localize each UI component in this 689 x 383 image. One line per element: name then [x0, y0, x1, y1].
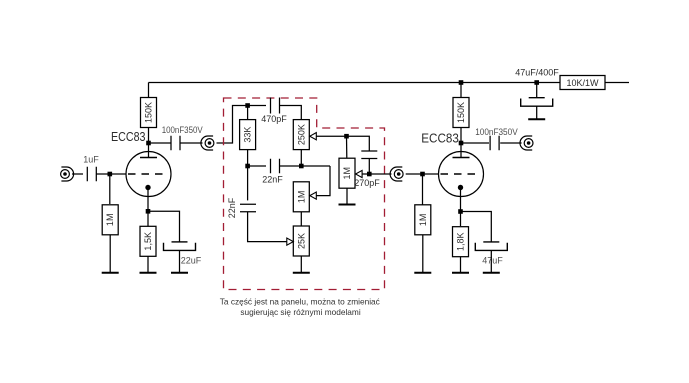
wire 1M bass wiper link — [316, 166, 330, 196]
svg-text:25K: 25K — [296, 233, 306, 249]
wire filter cap to ground — [536, 106, 538, 118]
svg-text:47uF/400F: 47uF/400F — [515, 68, 559, 78]
ground 1M V1 — [102, 272, 119, 274]
junction grid node V1 — [108, 172, 113, 177]
wire 33K bottom to mid node — [247, 150, 249, 166]
svg-text:150K: 150K — [456, 102, 466, 123]
wire volume pot to ground — [346, 188, 348, 204]
wiper arrow 25K — [287, 238, 294, 245]
svg-text:Ta część jest na panelu, można: Ta część jest na panelu, można to zmieni… — [220, 297, 380, 307]
svg-text:250K: 250K — [296, 124, 306, 145]
resistor 150K anode V1 — [141, 98, 157, 128]
connector input jack — [61, 167, 74, 181]
connector output jack — [520, 136, 533, 150]
svg-text:100nF350V: 100nF350V — [475, 127, 518, 137]
resistor 1,5K cathode V1 — [140, 226, 156, 256]
wire 150K V2 to rail — [460, 83, 462, 98]
wiper arrow 250K — [310, 133, 317, 140]
svg-text:1,5K: 1,5K — [143, 232, 153, 251]
potentiometer 1M bass — [293, 182, 309, 212]
junction 33K mid node — [245, 164, 250, 169]
wire grid node to 1M — [109, 174, 111, 204]
wire send jack to tone stack — [217, 106, 248, 144]
svg-text:150K: 150K — [144, 102, 154, 123]
wire 100nF to send jack — [180, 142, 203, 144]
svg-text:47uF: 47uF — [482, 255, 503, 265]
junction grid node V2 — [420, 172, 425, 177]
svg-text:1M: 1M — [418, 214, 428, 227]
resistor 10K/1W — [560, 76, 605, 90]
capacitor 100nF350V stage2 — [490, 136, 499, 151]
wire top node to 470pF — [248, 105, 266, 107]
wire anode to 100nF — [149, 142, 172, 144]
wire cathode V2 — [460, 190, 462, 226]
junction rail to 47uF cap — [534, 80, 539, 85]
wire 47uF to ground — [490, 250, 492, 272]
wire mid node to 22nF — [248, 165, 266, 167]
capacitor 22nF slope vertical — [240, 204, 256, 212]
wire 1M V2 to ground — [422, 235, 424, 272]
resistor 150K anode V2 — [453, 98, 469, 128]
wire B+ rail left section — [149, 82, 561, 84]
wire top node to 33K — [247, 106, 249, 120]
wire cathode V1 — [147, 190, 149, 226]
potentiometer 1M volume — [339, 158, 355, 188]
wire anode V1 — [148, 127, 150, 157]
svg-text:1M: 1M — [342, 167, 352, 180]
capacitor 100nF350V stage1 — [171, 136, 180, 151]
svg-text:ECC83: ECC83 — [421, 132, 459, 146]
svg-text:1uF: 1uF — [83, 154, 99, 164]
wire 1M bass to 25K — [300, 212, 302, 226]
wire 250K wiper to node A — [316, 135, 346, 137]
wire grid node to 1M V2 — [422, 174, 424, 205]
wire 1uF to grid node — [96, 173, 126, 175]
wire node A to volume pot — [346, 136, 348, 158]
svg-text:22nF: 22nF — [227, 197, 237, 218]
wire cathode to 47uF — [461, 212, 492, 242]
capacitor 22nF mid — [271, 159, 280, 174]
tube ECC83 V2 — [439, 152, 484, 197]
ground 47uF — [483, 272, 500, 274]
junction cathode node V1 — [146, 209, 151, 214]
svg-text:270pF: 270pF — [354, 178, 380, 188]
junction rail 150K V2 — [459, 80, 464, 85]
svg-text:22uF: 22uF — [181, 255, 202, 265]
wire anode V2 — [460, 127, 462, 157]
capacitor 47uF/400F filter — [521, 98, 553, 107]
panel outline (red dashed) — [224, 98, 385, 290]
svg-text:ECC83: ECC83 — [111, 130, 146, 144]
svg-text:10K/1W: 10K/1W — [566, 78, 599, 88]
wire cathode to 22uF — [148, 211, 180, 241]
junction cathode node V2 — [458, 209, 463, 214]
connector send jack — [201, 136, 214, 150]
ground volume pot — [339, 204, 356, 206]
svg-text:1M: 1M — [105, 214, 115, 227]
svg-text:470pF: 470pF — [261, 114, 287, 124]
resistor 1,8K cathode V2 — [453, 227, 469, 257]
svg-text:33K: 33K — [243, 127, 253, 143]
wire 25K to ground — [300, 256, 302, 272]
capacitor 1uF input — [87, 167, 96, 182]
junction node A wiper — [344, 134, 349, 139]
capacitor 22uF cathode bypass — [164, 242, 196, 251]
svg-text:22nF: 22nF — [262, 174, 283, 184]
junction tone stack top node — [245, 103, 250, 108]
wire rail to filter cap — [536, 83, 538, 98]
wire anode V2 to 100nF — [461, 142, 489, 144]
wire 22nF vertical to 25K wiper — [248, 212, 287, 242]
potentiometer 25K mid — [293, 226, 309, 256]
wire 150K to rail — [148, 83, 150, 98]
potentiometer 250K treble — [293, 120, 309, 150]
wiper arrow 1M bass — [310, 192, 317, 199]
junction 270pF output node — [367, 172, 372, 177]
svg-text:sugierując się różnymi modelam: sugierując się różnymi modelami — [240, 307, 361, 317]
junction anode node V1 — [146, 141, 151, 146]
wire 250K bottom to 1M bass — [300, 150, 302, 166]
wire node A to 270pF — [347, 136, 370, 151]
wire mid node to 22nF vertical — [247, 166, 249, 200]
ground 22uF — [171, 272, 188, 274]
capacitor 47uF cathode bypass — [475, 242, 507, 251]
ground filter cap — [528, 118, 545, 120]
wire 470pF to 250K top — [280, 106, 302, 120]
junction 250K bottom node — [299, 164, 304, 169]
ground 25K — [293, 272, 310, 274]
wire 1M to ground — [109, 235, 111, 272]
capacitor 470pF treble — [271, 98, 280, 114]
wire B+ rail right of 10K/1W — [605, 82, 629, 84]
wire input to 1uF — [72, 173, 83, 175]
wire 100nF to output jack — [500, 142, 521, 144]
wire 22uF to ground — [179, 250, 181, 272]
wire 1,8K to ground — [460, 257, 462, 272]
ground cathode V1 — [140, 272, 157, 274]
svg-text:100nF350V: 100nF350V — [162, 125, 203, 135]
resistor 33K slope — [240, 120, 256, 150]
wiper arrow 1M volume — [356, 170, 363, 177]
tube ECC83 V1 — [126, 152, 171, 197]
ground cathode V2 — [452, 272, 469, 274]
svg-text:1M: 1M — [296, 191, 306, 204]
wire return jack to grid V2 — [406, 173, 439, 175]
resistor 1M grid V1 — [102, 205, 118, 235]
connector return jack — [390, 167, 403, 181]
svg-text:1,8K: 1,8K — [456, 232, 466, 251]
wire 1,5K to ground — [147, 256, 149, 272]
wire 22nF to 250K bottom node — [280, 165, 331, 167]
wire 270pF to wiper row — [368, 159, 370, 175]
capacitor 270pF bright — [361, 151, 377, 159]
wire volume wiper to output node — [362, 173, 391, 175]
resistor 1M grid V2 — [415, 205, 431, 235]
junction anode node V2 — [459, 141, 464, 146]
ground 1M V2 — [414, 272, 431, 274]
